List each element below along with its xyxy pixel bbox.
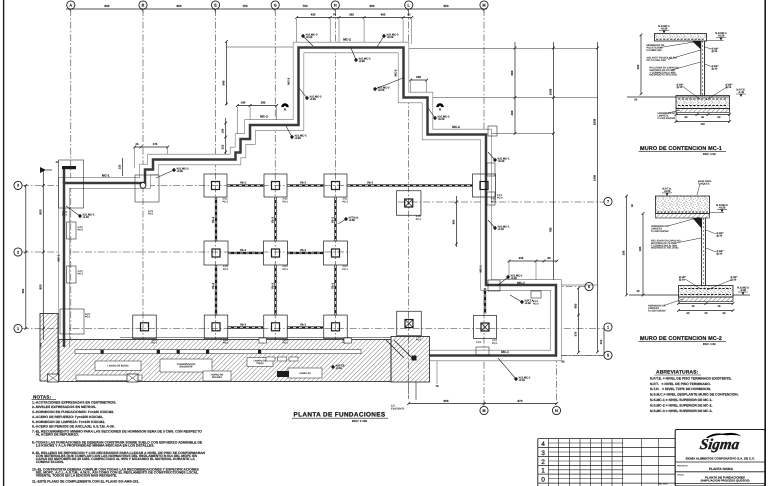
svg-text:2-C1: 2-C1 [492, 339, 497, 342]
svg-text:HORNO DE: HORNO DE [211, 374, 223, 377]
svg-text:AL ACERO DE REFUERZO.: AL ACERO DE REFUERZO. [32, 433, 79, 437]
svg-text:CAMILLAS: CAMILLAS [299, 372, 310, 375]
svg-text:-0.05: -0.05 [349, 219, 355, 222]
svg-text:Vb-1: Vb-1 [300, 181, 306, 184]
svg-text:-0.15: -0.15 [498, 228, 504, 231]
svg-text:PC-1: PC-1 [223, 200, 229, 203]
svg-text:MC-2: MC-2 [452, 126, 460, 129]
svg-text:+0.20: +0.20 [378, 89, 385, 92]
svg-text:-1.45: -1.45 [738, 91, 744, 94]
svg-text:400: 400 [381, 13, 386, 16]
svg-text:1436: 1436 [593, 175, 596, 181]
svg-text:800: 800 [176, 5, 181, 8]
svg-text:660: 660 [574, 304, 577, 309]
svg-text:50: 50 [685, 116, 688, 119]
svg-text:@ 20: @ 20 [712, 50, 718, 53]
svg-text:Vb-1: Vb-1 [331, 217, 334, 223]
svg-text:Vb-1: Vb-1 [271, 283, 274, 289]
svg-text:PLANTA SIGMA: PLANTA SIGMA [709, 467, 733, 471]
svg-text:0: 0 [541, 476, 545, 483]
svg-text:Vb-1: Vb-1 [300, 323, 306, 326]
svg-text:4: 4 [541, 441, 545, 448]
svg-text:MC-2: MC-2 [287, 78, 290, 85]
svg-text:PLANTA DE FUNDACIONES: PLANTA DE FUNDACIONES [294, 411, 386, 418]
svg-text:@ 20: @ 20 [717, 252, 723, 255]
svg-text:TITULO: TITULO [677, 474, 684, 476]
svg-text:ESC: 1:100: ESC: 1:100 [352, 420, 367, 423]
svg-text:+0.20: +0.20 [661, 27, 668, 30]
svg-text:PC-3: PC-3 [497, 196, 503, 199]
svg-text:2: 2 [541, 459, 545, 466]
svg-text:Sigma: Sigma [699, 437, 741, 453]
svg-text:3: 3 [541, 450, 545, 457]
svg-text:VIGENTE, TODOS EN LA EDICION M: VIGENTE, TODOS EN LA EDICION MAS RECIENT… [32, 474, 117, 478]
svg-text:20: 20 [637, 290, 640, 293]
svg-text:N.P.T. = NIVEL DE PISO TERMI: N.P.T. = NIVEL DE PISO TERMINADO. [650, 382, 711, 386]
svg-text:Vb-1: Vb-1 [240, 249, 246, 252]
svg-text:+0.20: +0.20 [387, 36, 394, 39]
svg-text:45: 45 [701, 116, 704, 119]
svg-text:(AMPLIACION PROCESO QUESOS): (AMPLIACION PROCESO QUESOS) [701, 479, 750, 482]
svg-text:206: 206 [416, 76, 421, 79]
svg-text:168: 168 [622, 251, 625, 256]
svg-text:1.5 KG/CM2 Y A LA PROFUNDIDAD: 1.5 KG/CM2 Y A LA PROFUNDIDAD MINIMA IND… [32, 444, 154, 448]
svg-text:2-C1: 2-C1 [223, 265, 228, 268]
svg-text:PC-1: PC-1 [283, 268, 289, 271]
svg-text:PC-1: PC-1 [223, 268, 229, 271]
svg-text:N.S.MC-1 = NIVEL SUPERIOR DE M: N.S.MC-1 = NIVEL SUPERIOR DE MC-1. [650, 398, 712, 402]
svg-text:905: 905 [443, 399, 448, 402]
svg-text:M: M [482, 409, 485, 413]
svg-text:1: 1 [607, 325, 609, 329]
svg-text:N.S.M.C.= NIVEL DESPLANTE MURO: N.S.M.C.= NIVEL DESPLANTE MURO DE CONTEN… [650, 393, 739, 397]
svg-text:f'c=100 KG/CM2: f'c=100 KG/CM2 [658, 117, 676, 120]
svg-text:Vb-1: Vb-1 [240, 181, 246, 184]
svg-text:E: E [214, 3, 217, 7]
svg-text:-0.05: -0.05 [310, 98, 316, 101]
svg-text:800: 800 [39, 284, 42, 289]
svg-text:370: 370 [574, 332, 577, 337]
svg-text:PC-2: PC-2 [78, 272, 84, 275]
svg-text:Vb-1: Vb-1 [331, 283, 334, 289]
svg-text:600: 600 [511, 70, 514, 75]
svg-text:MOLDEO: MOLDEO [212, 376, 222, 379]
svg-text:Vb-1: Vb-1 [367, 181, 373, 184]
svg-text:PC-3: PC-3 [533, 302, 539, 305]
svg-text:M: M [482, 3, 485, 7]
svg-text:@ 20: @ 20 [677, 86, 683, 89]
svg-text:2-C1: 2-C1 [416, 215, 421, 218]
svg-text:1008: 1008 [549, 89, 552, 96]
svg-text:A: A [69, 3, 72, 7]
svg-text:EXISTENTE: EXISTENTE [180, 366, 193, 369]
svg-text:+0.20: +0.20 [306, 36, 313, 39]
svg-text:Vb-1: Vb-1 [271, 217, 274, 223]
svg-text:COMPACTACION.: COMPACTACION. [32, 460, 64, 464]
svg-text:MC-2: MC-2 [260, 115, 268, 118]
svg-text:800: 800 [39, 209, 42, 214]
svg-text:1838: 1838 [593, 119, 596, 126]
svg-text:G: G [274, 3, 277, 7]
svg-text:6.-ACERO EN PERNOS DE ANCLAJE:: 6.-ACERO EN PERNOS DE ANCLAJE: A.S.T.M. … [32, 425, 115, 429]
svg-text:70: 70 [333, 13, 336, 16]
svg-text:LAVADO DE: LAVADO DE [254, 360, 267, 363]
svg-text:PC-1: PC-1 [85, 315, 91, 318]
svg-text:90: 90 [561, 361, 564, 364]
svg-text:N.P.T.E. = NIVEL DE PISO TERMI: N.P.T.E. = NIVEL DE PISO TERMINADO EXIST… [650, 377, 732, 381]
svg-text:N.S.MC-3 = NIVEL SUPERIOR DE M: N.S.MC-3 = NIVEL SUPERIOR DE MC-3. [650, 409, 712, 413]
svg-text:MOJANDO EL RELLENO: MOJANDO EL RELLENO [650, 74, 677, 77]
svg-text:-0.05: -0.05 [295, 137, 301, 140]
svg-text:800: 800 [443, 5, 448, 8]
svg-text:@ 20: @ 20 [712, 67, 718, 70]
svg-text:Vb-1: Vb-1 [300, 249, 306, 252]
svg-text:PISOS: PISOS [256, 362, 263, 365]
svg-text:f'c=100 KG/CM2: f'c=100 KG/CM2 [651, 230, 669, 233]
svg-text:CALIBRE 600: CALIBRE 600 [647, 49, 662, 52]
svg-text:75: 75 [435, 385, 438, 388]
svg-text:MC-1: MC-1 [479, 265, 482, 272]
svg-text:-0.15: -0.15 [336, 367, 342, 370]
svg-text:@ 20: @ 20 [717, 234, 723, 237]
svg-text:295: 295 [261, 101, 266, 104]
svg-text:5.-HORMIGON DE LIMPIEZA: f'c=1: 5.-HORMIGON DE LIMPIEZA: f'c=100 KG/CM2. [32, 420, 105, 424]
svg-text:800: 800 [22, 289, 25, 294]
svg-text:50: 50 [718, 116, 721, 119]
svg-text:700: 700 [242, 5, 247, 8]
svg-text:f'c=100 KG/CM2: f'c=100 KG/CM2 [648, 309, 666, 312]
svg-text:EXISTENTE: EXISTENTE [391, 407, 404, 410]
svg-text:50: 50 [631, 204, 634, 207]
svg-text:2.-NIVELES EXPRESADOS EN METRO: 2.-NIVELES EXPRESADOS EN METROS. [32, 406, 96, 410]
svg-text:7: 7 [607, 200, 609, 204]
svg-text:216: 216 [519, 256, 524, 259]
svg-text:MC-1: MC-1 [501, 351, 509, 354]
svg-text:H: H [334, 3, 337, 7]
svg-text:-0.95: -0.95 [740, 289, 746, 292]
svg-text:2-C1: 2-C1 [283, 265, 288, 268]
svg-text:+0.20: +0.20 [718, 34, 725, 37]
svg-text:41: 41 [407, 13, 410, 16]
svg-text:@ 20: @ 20 [731, 278, 737, 281]
svg-text:ABREVIATURAS:: ABREVIATURAS: [656, 370, 698, 376]
svg-text:40: 40 [56, 161, 59, 164]
svg-text:-0.15: -0.15 [83, 216, 89, 219]
svg-text:PC-1: PC-1 [492, 342, 498, 345]
svg-text:50: 50 [687, 312, 690, 315]
svg-text:1.-ACOTACIONES EXPRESADAS EN C: 1.-ACOTACIONES EXPRESADAS EN CENTIMETROS… [32, 401, 116, 405]
svg-text:MURO DE CONTENCION MC-1: MURO DE CONTENCION MC-1 [640, 146, 722, 152]
svg-text:L: L [408, 3, 410, 7]
svg-text:C.E.: C.E. [391, 405, 396, 408]
svg-text:MURO DE CONTENCION MC-2: MURO DE CONTENCION MC-2 [640, 336, 722, 342]
svg-text:700: 700 [302, 5, 307, 8]
svg-text:@ 20: @ 20 [679, 278, 685, 281]
svg-text:NOTAS:: NOTAS: [33, 395, 51, 400]
svg-text:2-C1: 2-C1 [343, 265, 348, 268]
svg-text:SIGMA ALIMENTOS CORPORATIVO S.: SIGMA ALIMENTOS CORPORATIVO S.A. DE C.V. [685, 457, 754, 460]
svg-text:190: 190 [222, 129, 225, 134]
svg-text:210: 210 [600, 340, 603, 345]
svg-text:800: 800 [104, 5, 109, 8]
svg-text:PC-1: PC-1 [148, 212, 154, 215]
svg-text:5: 5 [607, 354, 609, 358]
svg-text:Vb-1: Vb-1 [212, 217, 215, 223]
svg-text:Vb-1: Vb-1 [212, 283, 215, 289]
svg-text:PC-1: PC-1 [283, 200, 289, 203]
svg-text:1: 1 [17, 327, 19, 331]
svg-text:+0.20: +0.20 [719, 206, 726, 209]
svg-text:2-C1: 2-C1 [223, 198, 228, 201]
svg-text:362: 362 [349, 13, 354, 16]
svg-text:-0.05: -0.05 [359, 60, 365, 63]
svg-text:400: 400 [511, 110, 514, 115]
svg-text:+0.20: +0.20 [438, 118, 445, 121]
svg-text:ESC: 1:20: ESC: 1:20 [703, 343, 716, 346]
svg-text:11.-ESTE PLANO SE COMPLEMENTA: 11.-ESTE PLANO SE COMPLEMENTA CON EL PLA… [32, 480, 139, 484]
svg-text:20: 20 [705, 312, 708, 315]
svg-text:2-C1: 2-C1 [283, 198, 288, 201]
svg-text:25: 25 [135, 143, 138, 146]
svg-text:3.-HORMIGON EN FUNDACIONES: f': 3.-HORMIGON EN FUNDACIONES: f'c=240 KG/C… [32, 410, 114, 414]
svg-text:MC-2: MC-2 [394, 69, 397, 76]
svg-text:780: 780 [549, 227, 552, 232]
svg-text:40: 40 [692, 305, 695, 308]
svg-text:430: 430 [311, 13, 316, 16]
svg-text:870: 870 [517, 399, 522, 402]
svg-text:+0.20: +0.20 [498, 160, 505, 163]
svg-text:2-C1: 2-C1 [476, 341, 481, 344]
svg-text:150: 150 [637, 65, 640, 70]
svg-text:2: 2 [17, 250, 19, 254]
svg-text:B: B [142, 3, 145, 7]
svg-text:MC-1: MC-1 [517, 281, 525, 284]
svg-text:-0.05: -0.05 [511, 277, 517, 280]
svg-text:-0.05: -0.05 [525, 302, 531, 305]
svg-text:MOJANDO EL RELLENO: MOJANDO EL RELLENO [651, 247, 678, 250]
svg-text:2-C1: 2-C1 [343, 198, 348, 201]
svg-text:4.-ACERO DE REFUERZO: f'y=4200: 4.-ACERO DE REFUERZO: f'y=4200 KG/CM2. [32, 415, 103, 419]
svg-text:120: 120 [700, 123, 704, 126]
svg-text:MC-2: MC-2 [343, 38, 351, 41]
svg-text:40: 40 [718, 305, 721, 308]
svg-text:LAVADO DE BOTAS: LAVADO DE BOTAS [107, 365, 128, 368]
svg-text:-0.15: -0.15 [519, 379, 525, 382]
svg-text:CONSERVACION: CONSERVACION [177, 363, 195, 366]
svg-text:50: 50 [723, 312, 726, 315]
svg-text:MC-1: MC-1 [57, 254, 60, 261]
svg-text:800: 800 [452, 220, 455, 225]
svg-text:210: 210 [222, 145, 225, 150]
svg-text:PC-1: PC-1 [62, 213, 68, 216]
svg-text:80: 80 [547, 256, 550, 259]
svg-text:2-C1: 2-C1 [491, 198, 496, 201]
svg-text:3: 3 [17, 184, 19, 188]
svg-text:PC-1: PC-1 [491, 200, 497, 203]
svg-text:DE 2.5 CMS. ESP.: DE 2.5 CMS. ESP. [647, 59, 667, 62]
svg-text:125: 125 [118, 165, 121, 170]
svg-text:MC-1: MC-1 [102, 174, 110, 177]
svg-text:NO. ARQ.: NO. ARQ. [659, 483, 668, 485]
svg-text:PC-1: PC-1 [343, 200, 349, 203]
svg-text:N.T.H. = NIVEL TOPE DE HORMI: N.T.H. = NIVEL TOPE DE HORMIGON. [650, 388, 711, 392]
svg-text:A: A [439, 108, 441, 112]
svg-text:6: 6 [588, 285, 590, 289]
svg-text:940: 940 [222, 80, 225, 85]
svg-text:-0.05: -0.05 [177, 170, 183, 173]
svg-text:PC-1: PC-1 [416, 218, 422, 221]
svg-text:+0.20: +0.20 [664, 190, 671, 193]
svg-text:PROYECTO: PROYECTO [677, 465, 688, 467]
svg-text:165: 165 [639, 247, 642, 252]
svg-text:N.S.MC-2 = NIVEL SUPERIOR DE M: N.S.MC-2 = NIVEL SUPERIOR DE MC-2. [650, 404, 712, 408]
svg-text:800: 800 [369, 5, 374, 8]
svg-text:PC-2: PC-2 [78, 228, 84, 231]
svg-text:20: 20 [634, 98, 637, 101]
svg-text:ESC: 1:20: ESC: 1:20 [703, 153, 716, 156]
svg-text:140: 140 [241, 101, 246, 104]
svg-text:N: N [555, 409, 558, 413]
svg-text:PC-1: PC-1 [343, 268, 349, 271]
svg-text:PLANTA DE FUNDACIONES: PLANTA DE FUNDACIONES [705, 476, 745, 479]
svg-text:Vb-1: Vb-1 [240, 323, 246, 326]
svg-text:175: 175 [153, 143, 158, 146]
svg-text:A: A [284, 108, 286, 112]
svg-text:1: 1 [541, 467, 545, 474]
